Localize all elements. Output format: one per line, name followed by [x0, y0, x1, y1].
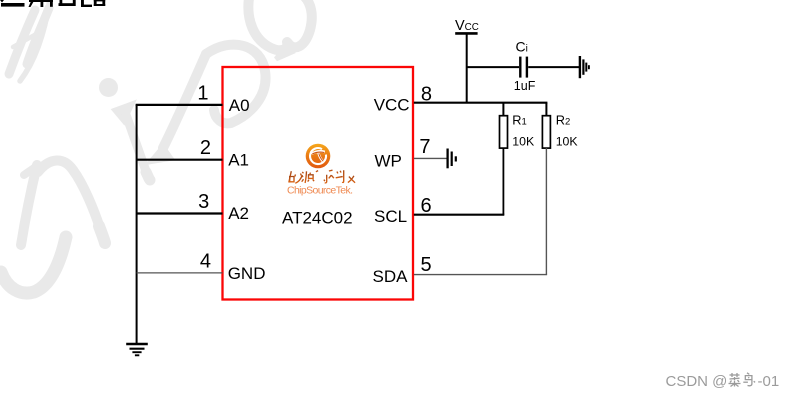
- svg-text:4: 4: [200, 250, 211, 272]
- svg-text:5: 5: [421, 254, 432, 276]
- wire pin 8 VCC rail: [414, 102, 548, 104]
- wire capacitor branch left: [467, 66, 519, 68]
- wire pin 5 SDA: [414, 274, 547, 276]
- svg-text:1: 1: [197, 83, 208, 105]
- svg-text:R2: R2: [556, 113, 571, 128]
- svg-text:10K: 10K: [556, 135, 579, 149]
- svg-text:VCC: VCC: [374, 96, 410, 115]
- wire capacitor branch right: [528, 66, 579, 68]
- svg-text:1uF: 1uF: [514, 79, 536, 93]
- svg-text:GND: GND: [228, 264, 266, 283]
- 特: [315, 170, 329, 183]
- svg-text:SDA: SDA: [373, 267, 409, 286]
- svg-text:A2: A2: [228, 204, 249, 223]
- svg-text:3: 3: [198, 191, 209, 213]
- watermark (decorative): [1, 0, 312, 293]
- wire pin 2 A1: [137, 159, 223, 161]
- svg-text:R1: R1: [512, 113, 527, 128]
- svg-text:ChipSourceTek.: ChipSourceTek.: [287, 185, 353, 197]
- svg-text:7: 7: [419, 136, 430, 158]
- ground (WP, rotated earth): [448, 149, 456, 169]
- 科: [328, 170, 342, 183]
- resistor R2: [542, 116, 550, 148]
- svg-text:A1: A1: [228, 150, 249, 169]
- svg-text:WP: WP: [375, 151, 402, 170]
- ChipSourceTek logo: [306, 144, 331, 169]
- wire pin 6 SCL: [414, 214, 505, 216]
- page title fragment (cut off at top): [0, 0, 105, 7]
- svg-text:10K: 10K: [512, 135, 535, 149]
- capacitor C1: [520, 57, 527, 78]
- svg-text:VCC: VCC: [455, 18, 479, 34]
- power VCC symbol: [455, 18, 479, 34]
- wire pin 4 GND: [137, 272, 223, 274]
- ground GND1 (earth): [126, 344, 148, 355]
- ground (capacitor, rotated earth): [580, 56, 589, 78]
- svg-text:A0: A0: [229, 96, 250, 115]
- credit text CSDN (decorative): [666, 373, 780, 390]
- svg-text:Ci: Ci: [516, 39, 528, 55]
- 矽: [289, 171, 303, 183]
- IC U1 AT24C02 body: [223, 67, 414, 300]
- wire pin 1 A0: [136, 104, 223, 106]
- 源: [302, 171, 316, 183]
- svg-text:AT24C02: AT24C02: [282, 209, 353, 228]
- logo text 矽源特科技 (drawn strokes): [289, 170, 356, 183]
- wire R2 bottom to SDA: [545, 148, 547, 275]
- svg-text:SCL: SCL: [374, 207, 407, 226]
- wire VCC stem: [466, 35, 468, 103]
- wire R1 bottom to SCL: [502, 148, 504, 215]
- svg-text:2: 2: [200, 137, 211, 159]
- svg-text:-01: -01: [758, 373, 780, 390]
- svg-text:CSDN @: CSDN @: [666, 373, 728, 390]
- 技: [342, 170, 356, 183]
- resistor R1 top stub: [502, 103, 504, 116]
- wire pin 7 WP: [414, 157, 447, 159]
- resistor R2 top stub: [545, 103, 547, 116]
- resistor R1: [500, 116, 508, 148]
- wire pin 3 A2: [137, 212, 223, 214]
- wire left bus vertical: [136, 105, 138, 344]
